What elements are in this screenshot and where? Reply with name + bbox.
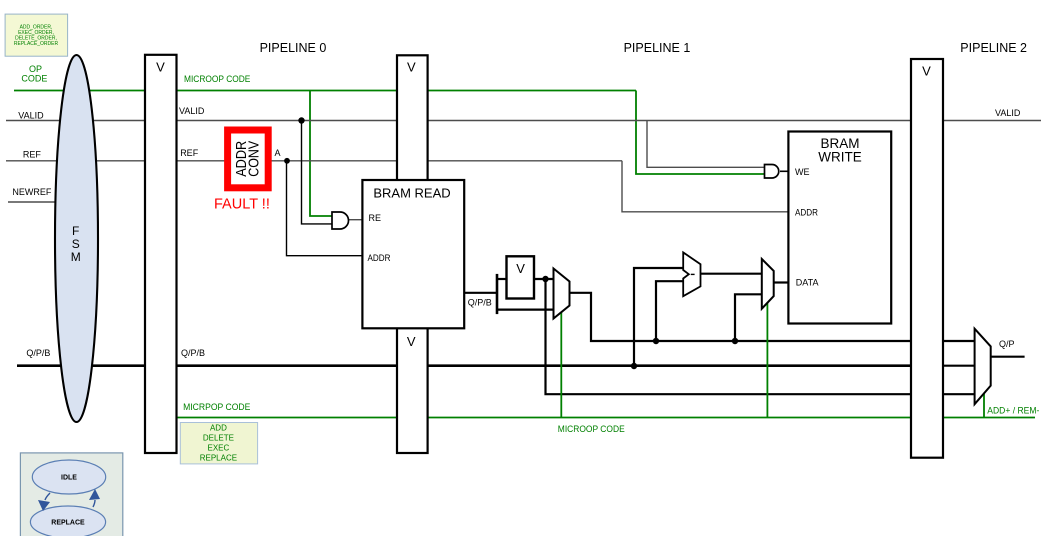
svg-text:ADD: ADD bbox=[210, 424, 227, 433]
svg-text:V: V bbox=[922, 64, 931, 79]
svg-text:BRAM READ: BRAM READ bbox=[373, 186, 450, 201]
BRAM READ block with pin labels RE and ADDR bbox=[362, 180, 464, 328]
state REPLACE bbox=[30, 506, 105, 536]
svg-text:FAULT !!: FAULT !! bbox=[214, 197, 270, 213]
svg-text:V: V bbox=[516, 261, 525, 276]
wire up to mux M2 lower input bbox=[735, 294, 762, 341]
wire AND1 output to RE bbox=[348, 219, 363, 221]
wire green down to WE and-gate bbox=[636, 91, 765, 175]
wire ALU output to mux M2 bbox=[701, 273, 762, 275]
svg-text:RE: RE bbox=[369, 213, 382, 223]
junction dot on Q/P/B line bbox=[631, 363, 637, 369]
pipeline register 1 (V) bbox=[397, 55, 428, 453]
svg-text:VALID: VALID bbox=[179, 106, 205, 116]
svg-text:Q/P/B: Q/P/B bbox=[26, 348, 50, 358]
note box top-left bbox=[5, 14, 68, 56]
mux M2 bbox=[762, 259, 774, 309]
wire mux M3 middle input from pipeline register 2 bbox=[943, 365, 975, 367]
wire bar bypass to mux M1 lower input bbox=[497, 309, 554, 311]
junction dot at V register output bbox=[542, 276, 548, 282]
wire MICROOP CODE green horizontal bbox=[14, 90, 636, 92]
svg-text:REPLACE: REPLACE bbox=[51, 520, 85, 527]
wire BRAM READ Q/P/B output to split bar bbox=[464, 292, 497, 294]
transition arrow IDLE to REPLACE bbox=[45, 493, 50, 500]
svg-text:ADDR: ADDR bbox=[795, 208, 818, 218]
svg-text:MICRPOP CODE: MICRPOP CODE bbox=[183, 402, 250, 412]
junction split bar bbox=[496, 274, 499, 314]
mux M3 output mux bbox=[975, 329, 991, 405]
note box ADD DELETE EXEC REPLACE bbox=[180, 423, 257, 464]
svg-text:S: S bbox=[72, 237, 80, 251]
junction dot node A on REF line bbox=[284, 158, 290, 164]
ADDR CONV faulty block (red) bbox=[228, 130, 269, 188]
svg-text:CONV: CONV bbox=[246, 141, 262, 177]
transition arrow REPLACE to IDLE bbox=[93, 500, 95, 507]
svg-text:V: V bbox=[407, 334, 416, 349]
FSM ellipse bbox=[55, 55, 98, 422]
svg-text:VALID: VALID bbox=[18, 110, 44, 120]
wire green branch down to RE and-gate bbox=[310, 91, 332, 217]
pipeline register 2 (V) bbox=[911, 59, 943, 458]
svg-text:A: A bbox=[275, 148, 281, 158]
wire mux M1 output bbox=[570, 293, 912, 341]
wire REF to BRAM WRITE ADDR bbox=[622, 161, 788, 212]
svg-text:MICROOP CODE: MICROOP CODE bbox=[558, 424, 625, 434]
state diagram box bbox=[20, 453, 122, 536]
svg-text:ADD+ / REM-: ADD+ / REM- bbox=[987, 406, 1039, 416]
AND gate U2 (WE) bbox=[765, 165, 779, 179]
svg-text:CODE: CODE bbox=[21, 74, 47, 84]
svg-text:MICROOP CODE: MICROOP CODE bbox=[184, 74, 250, 84]
svg-text:PIPELINE 0: PIPELINE 0 bbox=[260, 41, 327, 55]
wire green select mux M1 bbox=[560, 311, 562, 418]
wire REF horizontal bbox=[6, 160, 622, 162]
svg-text:Q/P/B: Q/P/B bbox=[468, 298, 492, 308]
svg-text:WE: WE bbox=[795, 167, 810, 177]
svg-text:REF: REF bbox=[23, 149, 42, 159]
wire mux M3 top input from pipeline register 2 bbox=[943, 340, 975, 342]
svg-text:WRITE: WRITE bbox=[818, 150, 862, 165]
svg-text:F: F bbox=[72, 224, 79, 238]
wire mux M3 bottom input from pipeline register 2 bbox=[943, 393, 975, 395]
svg-text:REF: REF bbox=[180, 148, 199, 158]
V register small bbox=[507, 256, 535, 298]
svg-text:EXEC: EXEC bbox=[208, 444, 230, 453]
junction dot on mux M1 output bus (right) bbox=[732, 338, 738, 344]
svg-text:OP: OP bbox=[29, 64, 42, 74]
wire green select mux M3 bbox=[983, 393, 985, 418]
svg-text:NEWREF: NEWREF bbox=[12, 187, 51, 197]
wire V register output to mux M1 bbox=[534, 278, 554, 280]
svg-text:DELETE: DELETE bbox=[203, 434, 234, 443]
wire AND2 output to WE bbox=[780, 170, 788, 172]
mux M1 bbox=[554, 269, 570, 319]
wire NEWREF horizontal bbox=[8, 201, 66, 203]
wire node down from V output to lower bus bbox=[546, 279, 912, 394]
wire up to ALU top input from QPB bbox=[634, 268, 683, 366]
wire VALID branch down to WE and-gate bbox=[647, 121, 765, 168]
wire MICROOP CODE bottom green horizontal bbox=[177, 417, 1036, 419]
svg-text:REPLACE_ORDER: REPLACE_ORDER bbox=[14, 41, 59, 47]
svg-text:PIPELINE 1: PIPELINE 1 bbox=[624, 41, 691, 55]
wire VALID branch down to RE and-gate bbox=[302, 121, 333, 224]
junction dot on VALID line bbox=[298, 117, 304, 123]
wire bar to V register bbox=[497, 278, 507, 280]
BRAM WRITE block with pin labels WE, ADDR, DATA bbox=[788, 132, 891, 324]
svg-text:Q/P/B: Q/P/B bbox=[181, 348, 205, 358]
svg-text:VALID: VALID bbox=[995, 108, 1021, 118]
junction dot on mux M1 output bus (left) bbox=[653, 338, 659, 344]
svg-text:DATA: DATA bbox=[796, 278, 819, 288]
state IDLE bbox=[32, 460, 105, 494]
svg-text:V: V bbox=[407, 60, 416, 75]
wire mux M2 output to BRAM WRITE DATA bbox=[774, 281, 789, 283]
wire VALID horizontal bbox=[6, 120, 1041, 122]
wire Q/P/B horizontal bbox=[17, 364, 911, 367]
svg-text:Q/P: Q/P bbox=[999, 339, 1015, 349]
svg-text:ADDR: ADDR bbox=[368, 253, 391, 263]
wire up to ALU lower input bbox=[656, 281, 683, 341]
wire mux M3 output Q/P bbox=[991, 356, 1025, 358]
svg-text:REPLACE: REPLACE bbox=[200, 454, 237, 463]
svg-text:PIPELINE 2: PIPELINE 2 bbox=[960, 41, 1027, 55]
svg-text:M: M bbox=[71, 250, 81, 264]
pipeline register 0 (V) bbox=[145, 55, 177, 453]
wire REF A branch down to BRAM READ ADDR bbox=[287, 161, 363, 256]
wire green select mux M2 bbox=[766, 302, 768, 418]
AND gate U1 (RE) bbox=[332, 212, 349, 229]
svg-text:V: V bbox=[156, 60, 165, 75]
ALU subtractor with minus sign bbox=[683, 252, 700, 296]
svg-text:IDLE: IDLE bbox=[61, 475, 77, 482]
